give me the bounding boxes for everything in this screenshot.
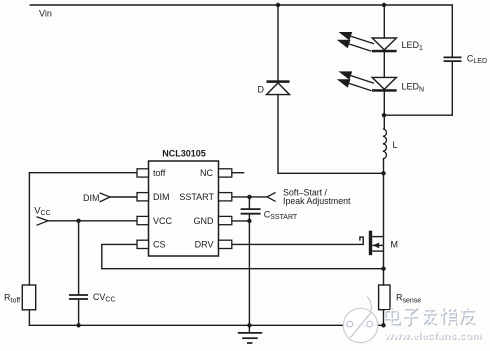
svg-text:CS: CS <box>153 240 166 250</box>
pin toff box <box>137 169 149 177</box>
wire CVcc to bottom rail <box>78 300 80 326</box>
wire LEDN to node <box>383 92 385 129</box>
node LED string / CLED return <box>382 113 386 117</box>
node top rail / diode <box>276 3 280 7</box>
wire LED1 to LEDN <box>383 52 385 77</box>
capacitor CSSTART plates <box>241 209 261 214</box>
wire VCC node to CVcc <box>78 221 80 294</box>
wire Rtoff bottom lead <box>28 310 30 326</box>
svg-text:Vin: Vin <box>39 9 52 19</box>
inductor L <box>383 129 387 159</box>
svg-text:D: D <box>258 85 265 95</box>
svg-text:toff: toff <box>153 168 166 178</box>
wire SSTART to arrow <box>232 196 267 198</box>
node GND stub / CSSTART <box>247 219 251 223</box>
node top rail / LED string <box>382 3 386 7</box>
svg-text:SSTART: SSTART <box>179 192 214 202</box>
LEDN <box>337 71 397 91</box>
pin VCC box <box>137 216 149 224</box>
node CVcc / bottom rail <box>76 323 80 327</box>
pin DIM box <box>137 193 149 201</box>
wire VCC input to pin <box>48 220 137 222</box>
resistor Rtoff <box>22 285 35 310</box>
wire bottom rail <box>29 324 383 326</box>
svg-text:www.elecfans.com: www.elecfans.com <box>383 331 481 342</box>
svg-text:Ipeak Adjustment: Ipeak Adjustment <box>283 196 351 206</box>
svg-text:M: M <box>391 239 399 249</box>
wire switch-node horizontal (diode anode to drain column) <box>278 172 384 174</box>
IC U1 NCL30105 body <box>149 161 219 256</box>
pin SSTART box <box>219 193 232 201</box>
watermark text 电子发烧友 (hand-drawn strokes) <box>385 308 475 326</box>
wire drain column <box>383 173 385 236</box>
svg-text:DIM: DIM <box>153 192 170 202</box>
pin GND box <box>219 216 232 224</box>
wire Rsense bottom lead <box>383 310 385 326</box>
wire left column to Rtoff <box>28 173 30 285</box>
wire SSTART node to CSSTART <box>248 197 250 209</box>
wire inductor bottom lead <box>383 159 385 174</box>
wire CS loop <box>102 244 384 268</box>
wire right rail lower (CLED bottom to LED string node) <box>384 62 452 116</box>
ground <box>238 333 262 343</box>
svg-text:GND: GND <box>194 216 215 226</box>
node Rsense / bottom rail <box>381 323 385 327</box>
svg-text:VCC: VCC <box>153 216 173 226</box>
wire GND pin stub <box>232 220 250 222</box>
pin CS box <box>137 240 149 248</box>
capacitor CLED plates <box>444 57 462 61</box>
wire Rsense top lead <box>383 269 385 285</box>
VCC input arrow <box>37 217 49 226</box>
wire mosfet right vertical <box>383 237 385 269</box>
svg-text:L: L <box>393 140 398 150</box>
svg-text:NC: NC <box>200 168 213 178</box>
wire DRV to gate <box>232 237 363 244</box>
node SSTART / CSSTART <box>247 195 251 199</box>
wire diode branch upper <box>277 5 279 80</box>
node ground / bottom rail <box>247 323 251 327</box>
node VCC / CVcc <box>76 219 80 223</box>
watermark logo circle <box>343 297 377 343</box>
capacitor CVcc plates <box>69 295 88 299</box>
svg-text:DRV: DRV <box>195 240 214 250</box>
pin DRV box <box>219 240 232 248</box>
wire DIM input to pin <box>110 196 137 198</box>
transistor M (MOSFET) <box>369 231 384 256</box>
LED1 <box>337 32 397 52</box>
DIM input arrow <box>100 193 110 202</box>
diode D <box>267 80 290 94</box>
wire top rail Vin <box>30 4 452 6</box>
svg-text:DIM: DIM <box>83 193 100 203</box>
pin NC box <box>219 169 232 177</box>
wire right rail upper (to CLED top) <box>451 5 453 57</box>
Soft-Start arrow <box>267 192 276 201</box>
wire GND net to ground <box>248 221 250 333</box>
svg-text:NCL30105: NCL30105 <box>162 149 206 159</box>
wire LED string top <box>383 5 385 38</box>
node source / CS sense <box>381 267 385 271</box>
node switch node <box>381 171 385 175</box>
resistor Rsense <box>379 285 390 310</box>
wire toff pin to left column <box>29 172 137 174</box>
wire NC stub <box>232 172 244 174</box>
wire CSSTART to GND net <box>248 214 250 221</box>
wire diode branch lower <box>277 95 279 174</box>
